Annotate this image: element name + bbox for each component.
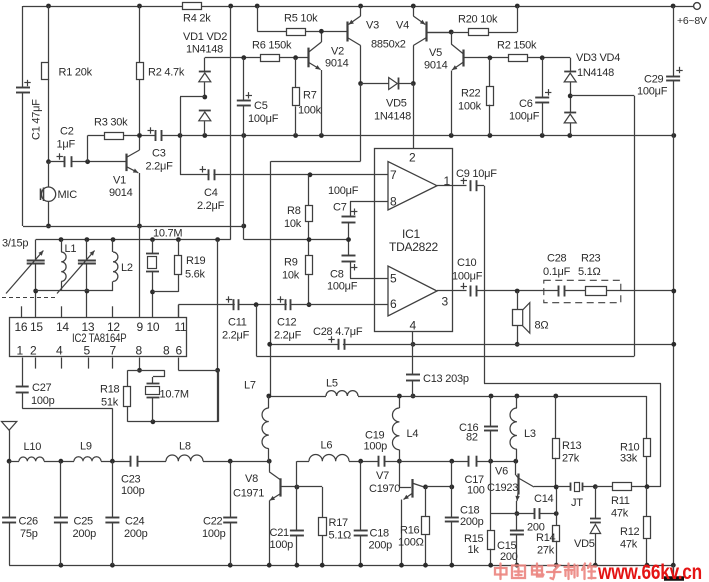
- svg-text:51k: 51k: [101, 397, 119, 409]
- svg-text:47k: 47k: [611, 508, 629, 520]
- svg-text:100μF: 100μF: [452, 271, 483, 283]
- svg-text:V6: V6: [495, 466, 508, 478]
- svg-text:R2 4.7k: R2 4.7k: [148, 67, 185, 79]
- svg-text:C29: C29: [644, 74, 664, 86]
- svg-text:R5 10k: R5 10k: [284, 13, 318, 25]
- svg-text:C1970: C1970: [369, 483, 400, 495]
- svg-text:C22: C22: [203, 516, 223, 528]
- svg-text:L10: L10: [24, 441, 42, 453]
- svg-text:2.2μF: 2.2μF: [222, 330, 250, 342]
- svg-text:V5: V5: [429, 47, 442, 59]
- svg-text:C25: C25: [74, 516, 94, 528]
- svg-text:100k: 100k: [298, 105, 322, 117]
- svg-text:15: 15: [30, 320, 43, 334]
- svg-text:100k: 100k: [458, 101, 482, 113]
- svg-text:R12: R12: [620, 526, 640, 538]
- svg-text:6: 6: [176, 344, 183, 358]
- svg-text:L1: L1: [65, 243, 77, 255]
- svg-text:0.1μF: 0.1μF: [543, 266, 571, 278]
- svg-text:V7: V7: [376, 470, 389, 482]
- svg-text:7: 7: [390, 168, 397, 182]
- svg-text:9: 9: [137, 320, 144, 334]
- svg-text:100p: 100p: [364, 441, 388, 453]
- svg-text:2: 2: [30, 344, 37, 358]
- svg-text:C10: C10: [457, 257, 477, 269]
- svg-text:9014: 9014: [325, 58, 349, 70]
- svg-text:1N4148: 1N4148: [186, 44, 223, 56]
- svg-text:27k: 27k: [562, 453, 580, 465]
- svg-text:11: 11: [175, 320, 188, 334]
- svg-text:C27: C27: [32, 382, 52, 394]
- svg-text:JT: JT: [571, 497, 583, 509]
- svg-text:5.1Ω: 5.1Ω: [578, 266, 601, 278]
- svg-text:1: 1: [17, 344, 24, 358]
- svg-text:C6: C6: [519, 98, 533, 110]
- svg-text:L7: L7: [244, 380, 256, 392]
- svg-text:R14: R14: [536, 532, 556, 544]
- svg-text:V2: V2: [331, 46, 344, 58]
- svg-text:100μF: 100μF: [509, 111, 540, 123]
- svg-text:2: 2: [409, 151, 416, 165]
- svg-text:9014: 9014: [109, 187, 133, 199]
- svg-text:4: 4: [56, 344, 63, 358]
- svg-text:2.2μF: 2.2μF: [197, 200, 225, 212]
- svg-text:200p: 200p: [124, 528, 148, 540]
- svg-text:5.6k: 5.6k: [185, 269, 206, 281]
- svg-text:C3: C3: [152, 148, 166, 160]
- svg-text:L2: L2: [121, 262, 133, 274]
- svg-text:VD1 VD2: VD1 VD2: [183, 31, 227, 43]
- svg-text:3: 3: [442, 295, 449, 309]
- svg-text:3/15p: 3/15p: [2, 238, 28, 250]
- svg-text:R4 2k: R4 2k: [183, 13, 211, 25]
- svg-text:C28: C28: [547, 253, 567, 265]
- svg-text:R2 150k: R2 150k: [497, 40, 537, 52]
- svg-text:200p: 200p: [73, 528, 97, 540]
- svg-text:100μF: 100μF: [637, 86, 668, 98]
- svg-text:R23: R23: [581, 253, 601, 265]
- svg-text:R11: R11: [611, 495, 630, 507]
- svg-text:TDA2822: TDA2822: [389, 240, 439, 254]
- svg-text:C1 47μF: C1 47μF: [31, 99, 43, 140]
- svg-text:R7: R7: [303, 90, 317, 102]
- svg-text:C5: C5: [254, 100, 268, 112]
- svg-text:V1: V1: [113, 175, 126, 187]
- svg-text:100Ω: 100Ω: [398, 537, 424, 549]
- svg-text:27k: 27k: [537, 545, 555, 557]
- svg-text:200: 200: [500, 551, 518, 563]
- svg-text:R1 20k: R1 20k: [59, 67, 93, 79]
- svg-text:6: 6: [390, 297, 397, 311]
- svg-text:100p: 100p: [31, 395, 55, 407]
- svg-text:C21: C21: [270, 527, 290, 539]
- svg-text:8Ω: 8Ω: [535, 320, 549, 332]
- svg-text:5: 5: [84, 344, 91, 358]
- svg-text:IC1: IC1: [402, 227, 421, 241]
- svg-text:10: 10: [147, 320, 160, 334]
- svg-text:9014: 9014: [424, 60, 448, 72]
- svg-text:10k: 10k: [282, 270, 300, 282]
- svg-text:R16: R16: [400, 525, 420, 537]
- svg-text:C4: C4: [204, 187, 218, 199]
- svg-text:C7: C7: [333, 202, 347, 214]
- svg-text:33k: 33k: [620, 453, 638, 465]
- svg-text:4: 4: [410, 319, 417, 333]
- svg-text:C13 203p: C13 203p: [423, 373, 469, 385]
- svg-text:R13: R13: [562, 440, 582, 452]
- svg-text:C28 4.7μF: C28 4.7μF: [313, 326, 363, 338]
- svg-text:L8: L8: [179, 441, 191, 453]
- svg-text:R18: R18: [100, 384, 120, 396]
- svg-text:C24: C24: [125, 516, 145, 528]
- svg-text:10.7M: 10.7M: [153, 228, 182, 240]
- svg-text:82: 82: [466, 432, 478, 444]
- svg-text:R6 150k: R6 150k: [252, 40, 292, 52]
- svg-text:2.2μF: 2.2μF: [146, 161, 174, 173]
- svg-text:5: 5: [390, 272, 397, 286]
- svg-text:100μF: 100μF: [328, 185, 359, 197]
- svg-text:C14: C14: [534, 493, 554, 505]
- svg-text:1μF: 1μF: [57, 139, 76, 151]
- svg-text:C23: C23: [121, 474, 141, 486]
- svg-text:C1971: C1971: [233, 488, 264, 500]
- svg-text:8: 8: [163, 344, 170, 358]
- svg-text:100p: 100p: [121, 485, 145, 497]
- svg-text:L9: L9: [80, 441, 92, 453]
- svg-text:100μF: 100μF: [327, 281, 358, 293]
- svg-text:5.1Ω: 5.1Ω: [329, 530, 352, 542]
- svg-text:10k: 10k: [284, 218, 302, 230]
- svg-text:L5: L5: [326, 378, 338, 390]
- svg-text:1k: 1k: [468, 544, 480, 556]
- svg-text:8: 8: [136, 344, 143, 358]
- svg-text:C8: C8: [330, 269, 344, 281]
- svg-text:200p: 200p: [460, 516, 484, 528]
- svg-text:16: 16: [15, 320, 28, 334]
- svg-text:10.7M: 10.7M: [160, 389, 189, 401]
- svg-text:C11: C11: [228, 317, 247, 329]
- svg-text:L4: L4: [407, 428, 419, 440]
- svg-text:C12: C12: [277, 317, 297, 329]
- svg-text:MIC: MIC: [58, 189, 78, 201]
- svg-text:7: 7: [110, 344, 117, 358]
- svg-text:L6: L6: [321, 440, 333, 452]
- svg-text:VD5: VD5: [386, 98, 407, 110]
- svg-text:1N4148: 1N4148: [577, 67, 614, 79]
- svg-text:R17: R17: [329, 517, 349, 529]
- svg-text:IC2 TA8164P: IC2 TA8164P: [72, 332, 127, 345]
- svg-text:R20 10k: R20 10k: [458, 14, 498, 26]
- svg-text:100p: 100p: [270, 539, 294, 551]
- svg-text:L3: L3: [524, 428, 536, 440]
- svg-text:14: 14: [56, 320, 69, 334]
- svg-text:2.2μF: 2.2μF: [274, 330, 302, 342]
- svg-text:R22: R22: [461, 88, 481, 100]
- svg-text:C18: C18: [370, 528, 390, 540]
- svg-text:C1923: C1923: [487, 482, 518, 494]
- svg-text:75p: 75p: [20, 528, 38, 540]
- svg-text:VD3 VD4: VD3 VD4: [576, 52, 620, 64]
- svg-text:V8: V8: [245, 473, 258, 485]
- svg-text:www.66kv.cn: www.66kv.cn: [597, 560, 702, 582]
- svg-text:+6~8V: +6~8V: [677, 15, 707, 27]
- svg-text:R3 30k: R3 30k: [94, 117, 128, 129]
- svg-text:VD5: VD5: [574, 538, 595, 550]
- svg-text:8: 8: [390, 195, 397, 209]
- svg-text:C2: C2: [60, 126, 74, 138]
- svg-text:R19: R19: [186, 255, 206, 267]
- svg-text:R9: R9: [284, 257, 298, 269]
- svg-text:8850x2: 8850x2: [371, 39, 406, 51]
- svg-text:R8: R8: [287, 205, 301, 217]
- svg-text:100: 100: [467, 485, 485, 497]
- svg-text:200p: 200p: [369, 540, 393, 552]
- svg-text:C18: C18: [460, 505, 480, 517]
- svg-text:100p: 100p: [202, 528, 226, 540]
- svg-text:47k: 47k: [620, 539, 638, 551]
- svg-text:100μF: 100μF: [248, 113, 279, 125]
- svg-text:V4: V4: [396, 20, 409, 32]
- svg-text:C9 10μF: C9 10μF: [456, 168, 497, 180]
- svg-text:V3: V3: [366, 20, 379, 32]
- svg-text:1N4148: 1N4148: [374, 111, 411, 123]
- svg-text:C26: C26: [19, 516, 39, 528]
